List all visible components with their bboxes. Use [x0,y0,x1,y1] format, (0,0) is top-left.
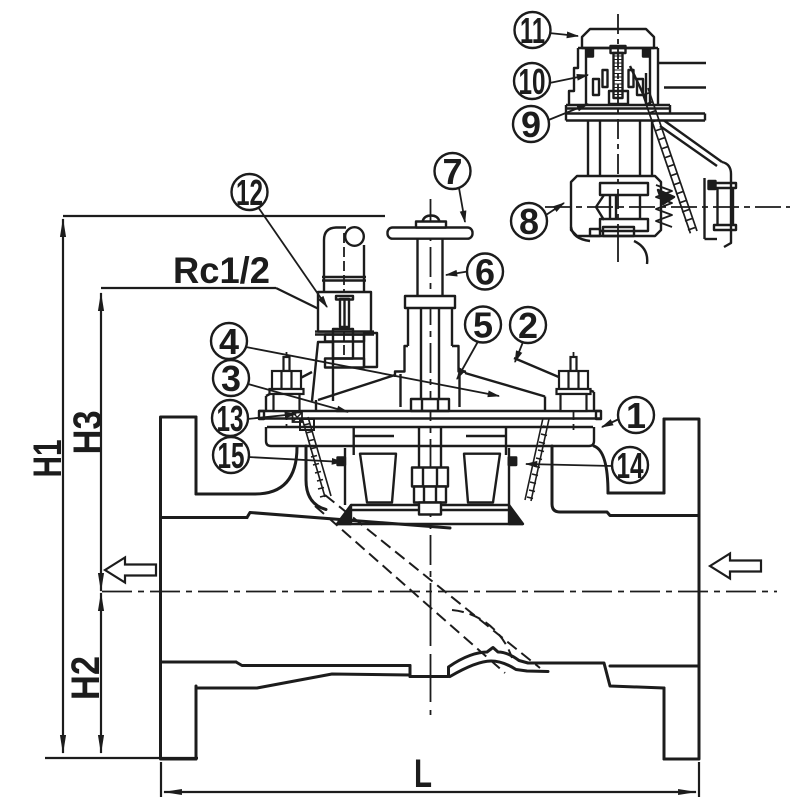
svg-text:8: 8 [519,201,539,242]
svg-text:Rc1/2: Rc1/2 [173,250,270,291]
svg-text:H2: H2 [64,656,108,700]
svg-text:7: 7 [442,151,462,192]
svg-text:11: 11 [520,10,545,51]
svg-text:L: L [414,752,432,796]
svg-text:9: 9 [521,104,541,145]
svg-text:5: 5 [473,305,493,346]
svg-text:2: 2 [518,305,538,346]
svg-text:H3: H3 [66,410,110,454]
svg-text:1: 1 [626,395,646,436]
svg-text:H1: H1 [26,440,70,478]
svg-text:3: 3 [221,358,241,399]
svg-text:14: 14 [617,445,644,486]
svg-text:10: 10 [519,61,546,102]
svg-text:15: 15 [218,435,245,476]
svg-text:13: 13 [217,398,244,439]
svg-text:4: 4 [219,321,239,362]
svg-text:6: 6 [475,252,495,293]
svg-text:12: 12 [236,172,263,213]
